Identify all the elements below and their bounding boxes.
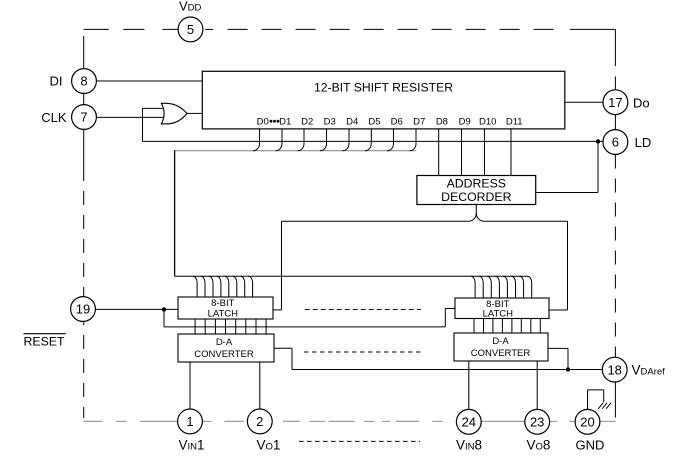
package boundary top edge (dashed) [84,28,616,30]
wire address decoder select stub with split arcs [468,205,484,222]
wire LD line (pin6 across to gate) [143,140,604,142]
wire bus branch 3 into latch U1 [217,276,221,297]
node channel ellipsis between latches [305,309,421,311]
wire bus branch 6 into latch U1 [241,276,245,297]
wire bus branch 2 into latch U1 [209,276,213,297]
wire bus branch 7 into latch U8 [528,276,532,298]
svg-text:LD: LD [635,135,652,150]
block D-A converter U2 [178,334,274,362]
wire gate input A from LD line [143,108,165,141]
wire data bus top run (grey) [175,150,416,152]
wire bus branch 2 into latch U8 [487,276,491,298]
wire bus branch 3 into latch U8 [495,276,499,298]
svg-text:18: 18 [607,362,621,377]
svg-text:19: 19 [76,302,90,317]
node channel ellipsis between converters [304,351,422,353]
pin 19 RESET [71,297,96,322]
pin 17 Do [603,90,628,115]
block address decoder U10 [417,176,536,205]
wire latch U1 to D-A converter U2 (8 lines) [195,319,266,334]
wire shift register D3 drop with hop arc to bus [320,129,327,151]
wire bus branch 1 into latch U1 [201,276,205,297]
svg-text:VDD: VDD [179,0,202,14]
wire CLK pin7 to gate input B [96,116,165,118]
ground (chassis) symbol [598,403,611,409]
wire bus branch 4 into latch U1 [225,276,229,297]
pin 20 GND [575,409,600,434]
label D0..D11 bit labels [257,116,523,127]
wire bus branch 5 into latch U1 [233,276,237,297]
svg-text:D2: D2 [301,116,313,127]
svg-text:2: 2 [256,414,263,429]
svg-text:LATCH: LATCH [208,308,239,319]
pin 2 Vo1 [247,409,272,434]
wire shift register D2 drop with hop arc to bus [298,129,305,151]
wire converter U2 output to VDAref rail [274,348,292,369]
wire LD branch down to address decoder [536,141,598,192]
svg-text:RESET: RESET [24,335,65,349]
wire converter U9 VIN8 to pin24 [468,361,470,409]
node dots between D0 and D1 [270,120,280,123]
wire bus branch 5 into latch U8 [511,276,515,298]
svg-text:D8: D8 [436,116,448,127]
svg-text:DECORDER: DECORDER [441,190,511,204]
pin 7 CLK [72,105,97,130]
wire shift register D1 drop with hop arc to bus [276,129,283,151]
wire bus branch 7 into latch U1 [248,276,252,297]
block 12-bit shift register [202,71,565,129]
svg-text:20: 20 [580,415,594,430]
pin 6 LD [603,130,628,155]
svg-text:D4: D4 [346,116,358,127]
wire shift register D0 drop with hop arc to bus [253,129,260,151]
svg-text:ADDRESS: ADDRESS [447,176,506,190]
node channel ellipsis between output pins [299,440,420,442]
wire pin20 GND hook [588,390,604,410]
svg-text:LATCH: LATCH [483,309,514,320]
block D-A converter U9 [454,333,548,361]
or-gate G1 (CLK/LD) [161,103,187,124]
pin 18 VDAref [602,357,627,382]
package boundary bottom edge (grey dashed) [84,420,616,422]
label RESET (active low) [24,334,66,349]
wire shift register D11 to address decoder [510,129,512,176]
package boundary right edge (dashed) [614,29,616,417]
svg-text:5: 5 [187,22,194,37]
wire converter U9 output to VDAref rail [548,348,568,369]
svg-text:D1: D1 [279,116,291,127]
svg-text:24: 24 [462,415,476,430]
block 8-bit latch U1 [178,297,273,319]
package boundary left edge (dashed) [83,36,85,418]
wire shift register Do output to pin17 [565,101,603,103]
wire shift register D6 drop with hop arc to bus [387,129,394,151]
wire latch U8 to D-A converter U9 (8 lines) [474,319,540,334]
wire bus branch 0 into latch U8 [471,276,475,298]
node LD junction [596,139,600,143]
svg-text:D6: D6 [391,116,403,127]
svg-text:7: 7 [80,110,87,125]
wire shift register D8 to address decoder [438,129,440,176]
wire VDAref rail to pin18 [292,369,602,371]
svg-text:17: 17 [608,95,622,110]
svg-text:DI: DI [50,74,63,89]
pin 1 VIN1 [178,409,203,434]
svg-text:6: 6 [612,135,619,150]
svg-text:D11: D11 [506,116,523,127]
wire bus branch 0 into latch U1 [193,276,197,297]
wire RESET distribution to latch U8 [164,309,455,327]
svg-text:D10: D10 [479,116,496,127]
pin 23 Vo8 [525,409,550,434]
wire bus branch 6 into latch U8 [519,276,523,298]
svg-text:1: 1 [186,414,193,429]
wire RESET pin19 to latch U1 [95,308,178,310]
svg-text:12-BIT SHIFT RESISTER: 12-BIT SHIFT RESISTER [314,80,453,94]
wire shift register D10 to address decoder [484,129,486,176]
svg-text:D-A: D-A [216,337,233,348]
wire data bus bottom run [175,275,528,277]
svg-text:D3: D3 [324,116,336,127]
wire shift register D7 drop with hop arc to bus [410,129,417,151]
svg-text:CLK: CLK [41,110,67,125]
node VDAref junction [566,367,570,371]
wire data bus left vertical [174,150,176,276]
svg-text:GND: GND [576,438,605,453]
block 8-bit latch U8 [455,298,549,319]
wire DI pin8 to shift register [96,80,202,82]
wire select line to latch U8 [484,221,567,310]
pin 8 DI [72,69,97,94]
wire shift register D4 drop with hop arc to bus [343,129,350,151]
wire select line to latch U1 [273,221,468,310]
svg-text:D-A: D-A [492,336,509,347]
svg-text:8: 8 [80,74,87,89]
svg-text:23: 23 [530,415,544,430]
node RESET junction [162,307,166,311]
wire converter U2 Vo1 to pin2 [259,362,261,409]
wire bus branch 4 into latch U8 [503,276,507,298]
svg-text:D0: D0 [257,116,269,127]
svg-text:D9: D9 [459,116,471,127]
pin 5 VDD [178,17,203,42]
wire gate output to shift register [187,112,202,114]
wire shift register D9 to address decoder [461,129,463,176]
svg-text:CONVERTER: CONVERTER [471,348,531,359]
wire converter U2 VIN1 to pin1 [189,362,191,409]
pin 24 VIN8 [456,409,481,434]
svg-text:CONVERTER: CONVERTER [194,349,254,360]
wire shift register D5 drop with hop arc to bus [365,129,372,151]
svg-text:D5: D5 [368,116,380,127]
wire bus branch 1 into latch U8 [479,276,483,298]
svg-text:Do: Do [633,95,650,110]
svg-text:D7: D7 [413,116,425,127]
wire converter U9 Vo8 to pin23 [536,361,538,409]
